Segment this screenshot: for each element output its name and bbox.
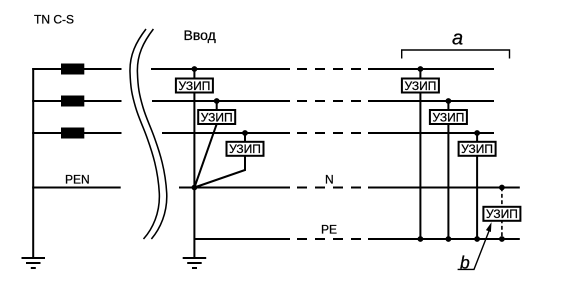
wire SPD7 dashed vertical: [501, 188, 503, 240]
wire phase line L1 left: [32, 68, 121, 70]
node junction PE under SPD4: [418, 236, 424, 242]
node junction L2 left: [214, 98, 220, 104]
wire N line: solid-dash-solid: [179, 187, 520, 189]
svg-text:УЗИП: УЗИП: [229, 142, 261, 156]
node junction L3 right: [474, 130, 480, 136]
svg-text:Ввод: Ввод: [184, 27, 216, 43]
SPD U7 УЗИП (optional, dashed): [483, 207, 520, 221]
node junction L2 right: [446, 98, 452, 104]
node junction L1 right: [418, 66, 424, 72]
wire L3 right: solid-dash-solid: [162, 132, 494, 134]
arrowhead of b leader: [486, 222, 492, 232]
impedance block on L2: [61, 96, 84, 107]
wire SPD2 top lead: [216, 101, 218, 109]
wire phase line L2 left: [32, 100, 121, 102]
svg-text:PE: PE: [321, 223, 337, 237]
svg-text:PEN: PEN: [65, 173, 90, 187]
wire L2 right: solid-dash-solid: [152, 100, 494, 102]
ground right: [183, 258, 207, 268]
SPD U6 УЗИП: [459, 142, 496, 156]
wire L1 right: solid-dash-solid: [151, 68, 494, 70]
svg-text:TN C-S: TN C-S: [34, 13, 74, 27]
wire left bus vertical: [32, 68, 34, 258]
wire main entry vertical: [193, 69, 195, 258]
SPD U2 УЗИП: [198, 110, 235, 124]
svg-text:УЗИП: УЗИП: [201, 110, 233, 124]
node junction PE under SPD6: [474, 236, 480, 242]
wire SPD3 bottom lead: [194, 156, 245, 188]
wire SPD6 vertical: [476, 133, 478, 239]
impedance block on L1: [61, 64, 84, 75]
svg-text:N: N: [325, 173, 334, 187]
wire phase line L3 left: [32, 132, 121, 134]
wire PE line: solid-dash-solid: [194, 238, 519, 240]
node junction PE under SPD5: [446, 236, 452, 242]
SPD U1 УЗИП: [176, 79, 213, 93]
node junction L1 left: [192, 66, 198, 72]
dimension bracket a: [402, 50, 510, 59]
node junction N left: [192, 185, 198, 191]
break squiggle line 1: [130, 29, 159, 239]
wire SPD3 top lead: [244, 133, 246, 142]
svg-text:УЗИП: УЗИП: [404, 79, 436, 93]
svg-text:a: a: [452, 27, 463, 49]
svg-text:УЗИП: УЗИП: [486, 207, 518, 221]
wire SPD4 vertical: [419, 69, 421, 239]
wire PEN line: [32, 187, 121, 189]
SPD U5 УЗИП: [430, 110, 467, 124]
SPD U3 УЗИП: [227, 142, 264, 156]
node junction N right dashed branch: [499, 185, 505, 191]
svg-text:УЗИП: УЗИП: [178, 79, 210, 93]
leader line from b: [458, 230, 490, 269]
node junction PE under SPD7: [499, 236, 505, 242]
svg-text:УЗИП: УЗИП: [461, 142, 493, 156]
wire SPD5 vertical: [447, 101, 449, 239]
impedance block on L3: [61, 128, 84, 139]
svg-text:УЗИП: УЗИП: [432, 110, 464, 124]
node junction L3 left: [242, 130, 248, 136]
wire SPD2 bottom diagonal lead: [194, 124, 216, 188]
break squiggle line 2: [137, 29, 166, 239]
SPD U4 УЗИП: [402, 79, 439, 93]
ground left: [22, 258, 46, 268]
